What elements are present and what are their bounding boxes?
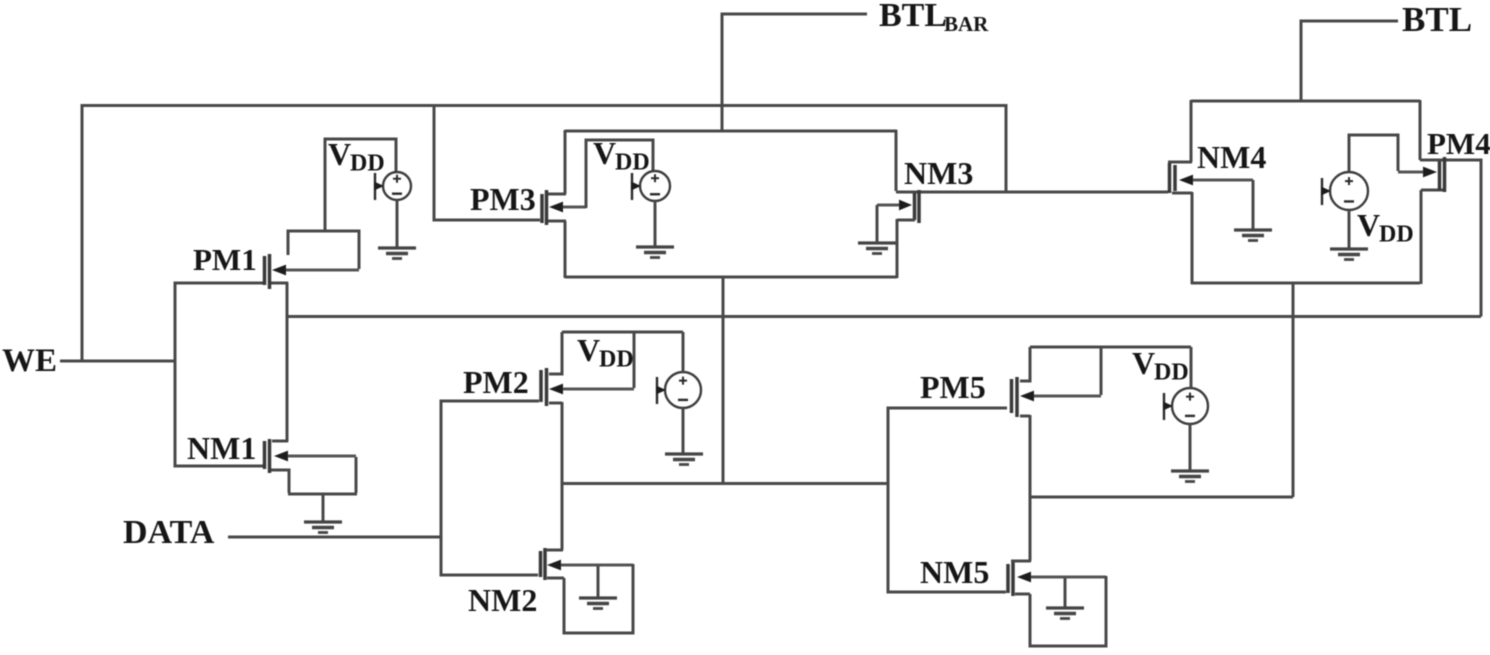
label NM1: [187, 430, 256, 466]
wire PM1 VDD lead: [325, 139, 396, 232]
wire NM3 arrowhead: [877, 200, 912, 211]
transistor NM1: [265, 439, 270, 473]
wire right cell box top: [1191, 100, 1420, 103]
transistor PM5: [1012, 377, 1018, 417]
wire NM4 drain jog: [1168, 161, 1192, 164]
label VDD4: [1357, 207, 1414, 248]
wire VDD3 to ground: [654, 201, 657, 247]
svg-text:V: V: [593, 135, 616, 171]
svg-text:NM5: NM5: [920, 554, 989, 590]
wire NM3 gate stem: [876, 205, 879, 243]
label PM5: [920, 369, 986, 405]
svg-text:PM4: PM4: [1427, 126, 1490, 161]
wire VDD2 to ground: [682, 408, 685, 454]
wire BTL lead: [1301, 21, 1398, 102]
wire PM4 source jog: [1421, 189, 1445, 192]
wire NM4 source jog: [1172, 192, 1192, 195]
label PM3: [470, 181, 536, 217]
svg-text:DD: DD: [1379, 222, 1414, 248]
wire PM5-NM5 riser: [1029, 415, 1032, 561]
wire PM2 source jog: [549, 402, 562, 405]
ground under NM1: [304, 522, 342, 533]
wire right cell box bottom: [1191, 282, 1420, 285]
wire NM1 drain jog: [272, 440, 288, 443]
wire output to BTL column: [1030, 283, 1293, 497]
wire PM5 source jog: [1020, 415, 1030, 418]
wire PM1 source jog: [271, 282, 288, 285]
wire NM4 arrowhead: [1179, 175, 1253, 186]
wire PM2/NM2 gate box: [441, 401, 539, 575]
wire elbow to PM3 gate: [434, 104, 540, 220]
voltage source VDD of PM4: [1321, 172, 1368, 210]
wire BTL_BAR vertical lower: [722, 277, 725, 484]
wire inverter box left upper: [564, 130, 567, 194]
wire NM4 gate stem: [1252, 180, 1255, 230]
ground under NM3: [858, 243, 896, 254]
wire PM5 arrowhead: [1020, 391, 1101, 402]
svg-text:PM3: PM3: [470, 181, 536, 217]
wire VDD5 drop: [1190, 347, 1193, 388]
voltage source VDD of PM2: [656, 372, 701, 408]
ground under NM5: [1046, 608, 1084, 619]
wire inverter box top: [565, 130, 897, 133]
transistor PM4: [1440, 157, 1445, 192]
label NM2: [468, 582, 537, 618]
wire middle long rail: [287, 315, 1481, 318]
wire NM2 ground stem: [597, 566, 600, 598]
ground under VDD5: [1171, 471, 1209, 482]
wire top rail right drop: [1005, 104, 1008, 192]
svg-text:NM4: NM4: [1197, 139, 1266, 175]
wire PM4 drain riser: [1420, 160, 1481, 317]
wire PM3 drain jog: [548, 193, 566, 196]
ground under VDD4: [1330, 249, 1368, 260]
label BTL_BAR: [879, 0, 989, 36]
wire NM5 drain jog: [1011, 560, 1031, 563]
label BTL: [1402, 0, 1472, 39]
label VDD1: [328, 136, 385, 177]
wire NM2 arrowhead: [547, 560, 633, 571]
wire NM3 source jog: [897, 219, 915, 222]
wire PM4 arrowhead: [1398, 167, 1437, 178]
wire right cell right lower: [1420, 190, 1423, 284]
label PM2: [463, 364, 529, 400]
wire inverter box right lower: [896, 219, 899, 278]
svg-text:PM1: PM1: [193, 242, 257, 277]
wire PM4 VDD lead: [1349, 135, 1398, 172]
wire PM2-NM2 riser: [561, 402, 564, 550]
voltage source VDD of PM3: [631, 171, 670, 201]
svg-text:DD: DD: [1154, 360, 1189, 386]
wire DATA lead: [228, 536, 442, 539]
wire inverter box left lower: [564, 221, 567, 278]
wire VDD4 to ground: [1348, 210, 1351, 249]
ground under NM4: [1234, 230, 1272, 241]
svg-text:PM2: PM2: [463, 364, 529, 400]
ground under NM2: [579, 598, 617, 609]
svg-text:DATA: DATA: [123, 514, 215, 551]
transistor NM5: [1008, 562, 1013, 596]
wire NM2 source box: [547, 564, 633, 633]
wire PM1 gate feedback rect: [288, 231, 359, 269]
svg-text:NM3: NM3: [904, 155, 973, 191]
svg-text:V: V: [328, 136, 351, 172]
wire PM5/NM5 gate box: [888, 408, 1007, 592]
transistor PM3: [542, 190, 547, 225]
wire NM5 source box: [1015, 576, 1106, 646]
wire NM1 source loop: [271, 457, 357, 494]
label VDD2: [577, 332, 634, 373]
wire right cell left lower: [1191, 192, 1194, 284]
ground under VDD3: [636, 247, 674, 258]
wire VDD1 to ground: [396, 200, 399, 248]
svg-text:DD: DD: [615, 150, 650, 176]
transistor NM3: [915, 190, 920, 223]
transistor NM2: [541, 548, 546, 580]
label WE: [2, 343, 57, 379]
wire PM3 source jog: [548, 220, 566, 223]
label PM4: [1427, 126, 1490, 161]
wire PM2 arrowhead: [549, 384, 634, 395]
svg-text:PM5: PM5: [920, 369, 986, 405]
wire PM5 drain jog: [1020, 347, 1030, 381]
wire inverter box right upper: [895, 130, 898, 191]
wire PM1 arrowhead: [272, 265, 359, 276]
wire PM1-NM1 right edge: [286, 282, 289, 442]
label NM3: [904, 155, 973, 191]
svg-text:BTL: BTL: [1402, 0, 1472, 39]
svg-text:NM2: NM2: [468, 582, 537, 618]
label VDD3: [593, 135, 650, 176]
wire inverter box bottom: [565, 276, 897, 279]
svg-text:BTL: BTL: [879, 0, 947, 34]
label VDD5: [1132, 345, 1189, 386]
wire VDD5 to ground: [1189, 424, 1192, 471]
wire NM5 arrowhead: [1017, 572, 1106, 583]
svg-text:DD: DD: [350, 151, 385, 177]
wire PM5 VDD top: [1030, 346, 1191, 349]
wire PM3 VDD lead: [586, 140, 653, 208]
wire left drop to WE: [81, 104, 84, 361]
wire PM1/NM1 gate box: [175, 283, 264, 466]
voltage source VDD of PM1: [374, 172, 411, 200]
voltage source VDD of PM5: [1163, 388, 1208, 424]
wire PM2 drain rail: [562, 482, 887, 485]
transistor NM4: [1170, 163, 1176, 193]
label DATA: [123, 514, 215, 551]
label NM4: [1197, 139, 1266, 175]
svg-text:V: V: [577, 332, 600, 368]
svg-text:V: V: [1357, 207, 1380, 243]
wire right cell right upper: [1419, 100, 1422, 160]
transistor PM2: [541, 368, 547, 406]
wire PM2 gate feedback: [633, 333, 636, 388]
svg-text:DD: DD: [599, 347, 634, 373]
wire top rail WE net: [82, 104, 1007, 107]
wire PM2 VDD top: [562, 331, 683, 334]
wire NM3 to NM4 net: [896, 191, 1168, 194]
label PM1: [193, 242, 257, 277]
svg-text:WE: WE: [2, 343, 57, 379]
ground under VDD1: [378, 248, 416, 259]
wire NM5 ground stem: [1064, 578, 1067, 608]
wire right cell left upper: [1190, 100, 1193, 162]
wire PM2 drain jog: [549, 332, 562, 374]
label NM5: [920, 554, 989, 590]
wire NM1 arrowhead: [274, 451, 356, 462]
node WE stub wire: [60, 360, 176, 363]
svg-text:NM1: NM1: [187, 430, 256, 466]
svg-text:V: V: [1132, 345, 1155, 381]
svg-text:BAR: BAR: [944, 12, 989, 36]
wire VDD2 drop: [682, 332, 685, 372]
transistor PM1: [265, 254, 270, 289]
wire PM3 arrowhead: [549, 202, 586, 213]
wire NM2 drain jog: [546, 549, 563, 552]
wire NM1 ground stem: [322, 494, 325, 522]
wire PM5 gate feedback: [1100, 348, 1103, 395]
ground under VDD2: [665, 454, 703, 465]
wire BTL_BAR lead: [722, 14, 867, 131]
